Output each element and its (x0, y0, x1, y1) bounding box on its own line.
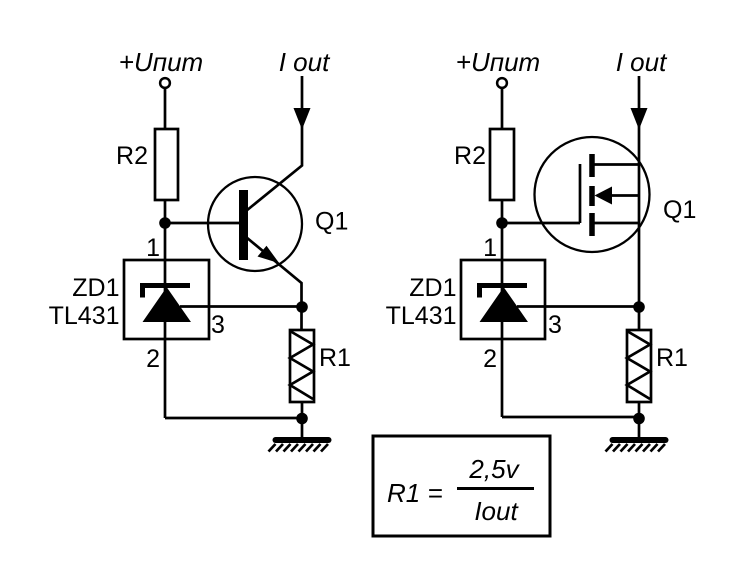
svg-text:TL431: TL431 (386, 302, 457, 330)
svg-text:ZD1: ZD1 (72, 274, 119, 302)
svg-text:R2: R2 (116, 142, 148, 170)
formula fraction bar (457, 487, 534, 490)
svg-text:I out: I out (279, 47, 331, 77)
wire R2 to node A (left) (164, 200, 167, 224)
resistor R2 (right) (490, 129, 514, 200)
node A junction dot (left) (159, 217, 171, 229)
svg-text:2: 2 (146, 345, 160, 373)
ground symbol (right) (606, 440, 666, 452)
MOSFET bulk wire (595, 222, 640, 225)
wire R1 to ground (right) (638, 402, 641, 437)
wire gate node to MOSFET gate (right) (502, 222, 580, 225)
ground node junction dot (right) (633, 413, 645, 425)
TL431 body box ZD1 (left) (124, 260, 209, 339)
TL431 internal reference diode (left) (143, 286, 191, 322)
resistor R1 (right) (627, 330, 651, 402)
drain wire up to I out (right) (638, 76, 641, 331)
svg-text:TL431: TL431 (49, 302, 120, 330)
I out arrow (left) (294, 108, 311, 130)
BJT collector wire up to I out (246, 76, 302, 211)
resistor R1 (left) (290, 330, 314, 402)
svg-text:3: 3 (211, 311, 225, 339)
svg-text:R1: R1 (319, 344, 351, 372)
MOSFET channel bar top (589, 154, 595, 177)
MOSFET source wire (610, 194, 639, 197)
wire gate node through TL431 to pin2 (right) (501, 223, 504, 417)
wire terminal to R2 (right) (501, 89, 504, 130)
gate node junction dot (right) (496, 217, 508, 229)
svg-text:Q1: Q1 (315, 208, 348, 236)
wire pin 3 to R1 node (left) (180, 305, 302, 308)
svg-text:1: 1 (483, 234, 497, 262)
wire pin 3 to R1 node (right) (517, 305, 639, 308)
wire pin 2 to ground node (left) (165, 417, 302, 420)
MOSFET channel bar middle (589, 186, 595, 206)
svg-text:R2: R2 (454, 142, 486, 170)
TL431 body box ZD1 (right) (461, 260, 545, 339)
svg-text:3: 3 (548, 311, 562, 339)
TL431 internal reference diode (right) (480, 286, 528, 322)
wire pin 2 to ground node (right) (502, 416, 639, 419)
transistor Q1 MOSFET circle (right) (535, 137, 650, 252)
svg-text:I out: I out (616, 47, 668, 77)
svg-text:2: 2 (483, 345, 497, 373)
svg-text:ZD1: ZD1 (409, 274, 456, 302)
MOSFET source arrow (595, 187, 613, 205)
node emitter/pin3/R1 junction dot (left) (296, 301, 308, 313)
BJT base bar (239, 190, 248, 260)
wire terminal to R2 (left) (164, 89, 167, 130)
wire node A through TL431 to pin2 (left) (164, 223, 167, 418)
formula box (373, 436, 550, 536)
MOSFET gate bar (579, 164, 582, 223)
wire R1 to ground (left) (301, 402, 304, 437)
ground symbol (left) (269, 440, 329, 452)
resistor R2 (left) (155, 129, 178, 200)
terminal +Uпит (right) (497, 78, 507, 88)
svg-text:R1: R1 (656, 344, 688, 372)
svg-text:Q1: Q1 (663, 196, 696, 224)
node pin3/R1 junction dot (right) (633, 301, 645, 313)
svg-text:+Uпит: +Uпит (456, 47, 540, 77)
I out arrow (right) (631, 108, 648, 130)
wire node A to base (left) (165, 222, 240, 225)
svg-text:2,5v: 2,5v (468, 454, 520, 484)
svg-text:R1 =: R1 = (387, 478, 443, 508)
svg-text:Iout: Iout (474, 496, 519, 526)
svg-text:1: 1 (146, 234, 160, 262)
MOSFET drain wire (595, 163, 640, 166)
transistor Q1 BJT circle (left) (208, 177, 302, 271)
BJT emitter arrow (258, 246, 280, 263)
terminal +Uпит (left) (160, 78, 170, 88)
svg-text:+Uпит: +Uпит (119, 47, 203, 77)
MOSFET channel bar bottom (589, 213, 595, 236)
ground node junction dot (left) (296, 413, 308, 425)
wire R2 to gate node (right) (501, 200, 504, 224)
BJT emitter wire to R1 (left) (246, 237, 302, 331)
